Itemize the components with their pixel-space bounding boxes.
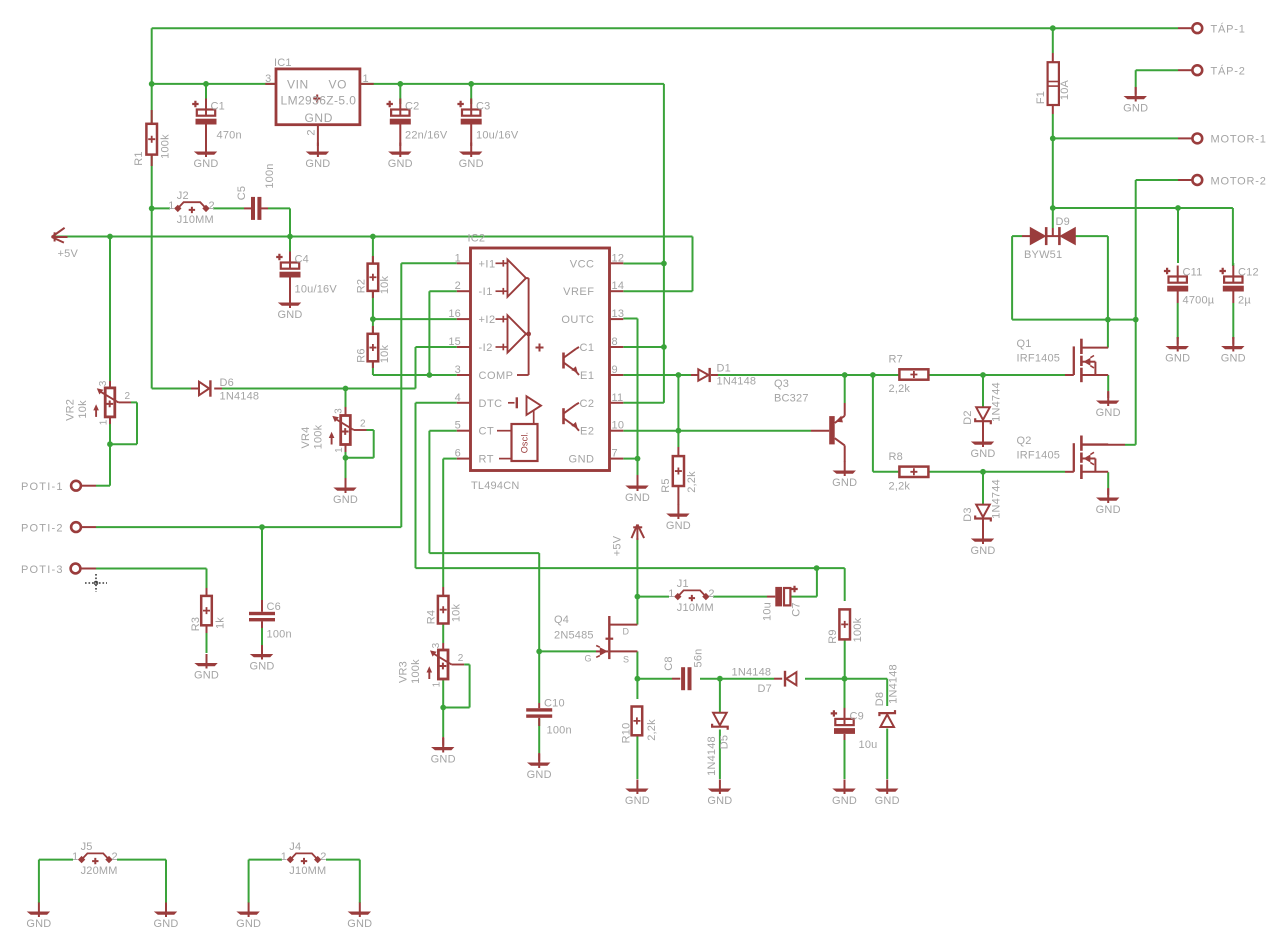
dual diode D9 BYW51 [1052, 228, 1054, 236]
svg-text:2N5485: 2N5485 [554, 630, 594, 642]
ground TAP-2 [1135, 87, 1137, 95]
svg-text:E1: E1 [580, 370, 594, 382]
wire R8 branch [872, 375, 874, 472]
ground C4 [289, 294, 291, 309]
svg-text:GND: GND [459, 158, 484, 170]
svg-text:1: 1 [281, 851, 287, 863]
ground C2 [399, 143, 401, 158]
zener diode D8 1N4148 [880, 715, 894, 728]
svg-text:100n: 100n [267, 629, 292, 641]
svg-text:1: 1 [668, 588, 674, 600]
svg-text:J20MM: J20MM [81, 865, 118, 877]
wire VCC drop to IC2 pin 12 [663, 84, 665, 347]
capacitor C6 [249, 612, 275, 615]
svg-text:3: 3 [334, 408, 345, 414]
svg-text:R5: R5 [660, 478, 672, 492]
svg-text:Q1: Q1 [1017, 338, 1032, 350]
jumper J4 [287, 856, 294, 863]
ground R10 [636, 780, 638, 795]
wire D9 left lead loop [1012, 235, 1022, 237]
svg-text:VCC: VCC [570, 258, 595, 270]
ground Q1 source [1107, 392, 1109, 407]
ground J5 pin2 [165, 903, 167, 918]
svg-text:R7: R7 [889, 354, 903, 366]
svg-text:1N4148: 1N4148 [732, 667, 772, 679]
svg-text:3: 3 [431, 642, 442, 648]
svg-text:CT: CT [479, 426, 495, 438]
svg-text:GND: GND [236, 918, 261, 930]
svg-text:14: 14 [612, 280, 625, 292]
svg-text:GND: GND [625, 795, 650, 807]
wire C12 stem [1232, 208, 1234, 266]
svg-text:VR2: VR2 [64, 399, 76, 421]
ground C10 [538, 753, 540, 761]
ground J4 pin1 [248, 903, 250, 918]
capacitor C8 [672, 678, 680, 680]
wire E2 row to Q3 base [623, 430, 811, 432]
ground R3 [206, 654, 208, 669]
svg-text:C8: C8 [663, 656, 675, 670]
wire C3 stem [470, 84, 472, 104]
svg-text:D6: D6 [220, 377, 234, 389]
wire +I1 to POTI-2 [401, 262, 457, 264]
svg-text:GND: GND [1221, 353, 1246, 365]
supply +5V arrow up [636, 525, 638, 541]
wire 5V regulator output rail [152, 83, 664, 85]
svg-text:2: 2 [320, 851, 326, 863]
svg-text:C2: C2 [405, 101, 419, 113]
svg-text:GND: GND [970, 545, 995, 557]
svg-text:1N4744: 1N4744 [990, 382, 1002, 422]
svg-text:2: 2 [708, 588, 714, 600]
svg-text:R10: R10 [620, 723, 632, 744]
svg-text:IRF1405: IRF1405 [1017, 450, 1061, 462]
svg-text:IC2: IC2 [468, 233, 486, 245]
wire C11 stem [1177, 208, 1179, 263]
svg-text:3: 3 [455, 364, 461, 376]
svg-text:GND: GND [305, 158, 330, 170]
ground D2 [982, 433, 984, 448]
svg-text:10: 10 [612, 420, 625, 432]
svg-text:COMP: COMP [479, 370, 514, 382]
svg-text:+5V: +5V [611, 535, 623, 556]
svg-text:GND: GND [388, 158, 413, 170]
svg-text:9: 9 [612, 364, 618, 376]
svg-text:C12: C12 [1238, 267, 1259, 279]
svg-text:100n: 100n [264, 163, 276, 188]
wire +5V to J1 node [636, 538, 638, 597]
wire F1 top [1052, 28, 1054, 53]
svg-text:GND: GND [1123, 103, 1148, 115]
wire E1 row through D1 to Q3/R7 [623, 374, 691, 376]
svg-text:11: 11 [612, 392, 624, 404]
connector pad MOTOR-1 [1178, 137, 1192, 139]
ground VR4 [345, 478, 347, 486]
svg-text:VO: VO [329, 78, 348, 92]
resistor R7 [899, 369, 928, 379]
svg-text:Q2: Q2 [1017, 435, 1032, 447]
ground C1 [205, 143, 207, 158]
svg-text:POTI-2: POTI-2 [21, 523, 64, 535]
capacitor C1 [192, 101, 198, 107]
diode D1 [691, 374, 698, 376]
ground Q2 source [1107, 489, 1109, 504]
resistor R5 [677, 447, 679, 456]
svg-text:TL494CN: TL494CN [471, 480, 519, 492]
wire left vertical R1/J2/D6 column [151, 28, 153, 388]
svg-text:MOTOR-2: MOTOR-2 [1211, 175, 1267, 187]
svg-text:GND: GND [153, 918, 178, 930]
IC2 comp bus [526, 277, 529, 279]
svg-text:GND: GND [707, 795, 732, 807]
IC2 right pin stubs [610, 262, 624, 264]
svg-text:1: 1 [432, 681, 443, 687]
wire VR2 wiper loop [136, 402, 138, 444]
svg-text:1: 1 [363, 73, 369, 85]
wire D8 bottom [886, 729, 888, 780]
svg-text:GND: GND [832, 795, 857, 807]
connector pad MOTOR-2 [1178, 179, 1192, 181]
svg-text:2: 2 [305, 129, 317, 135]
wire C8 row [637, 678, 672, 680]
ground D3 [982, 530, 984, 545]
IC2 dead-time comparator [508, 402, 515, 404]
svg-text:GND: GND [666, 520, 691, 532]
svg-text:GND: GND [347, 918, 372, 930]
ground J5 pin1 [38, 903, 40, 918]
svg-text:-I1: -I1 [479, 286, 493, 298]
svg-text:1: 1 [455, 252, 461, 264]
svg-text:GND: GND [193, 158, 218, 170]
resistor R2 [372, 256, 374, 264]
svg-text:1N4744: 1N4744 [990, 479, 1002, 519]
ground VR3 [442, 737, 444, 746]
ground IC2 pin7 [637, 475, 639, 484]
capacitor C2 [387, 101, 393, 107]
wire E1-E2 tie to R5 [677, 375, 679, 447]
zener diode D2 1N4744 [976, 407, 990, 420]
transistor Q4 2N5485 JFET [608, 616, 610, 659]
resistor R4 [442, 587, 444, 596]
svg-text:10k: 10k [379, 276, 391, 295]
IC regulator IC1 LM2936Z-5.0 [265, 83, 276, 85]
svg-text:2: 2 [360, 419, 366, 430]
svg-text:GND: GND [970, 448, 995, 460]
svg-text:Oscl.: Oscl. [520, 432, 530, 454]
MOSFET Q2 IRF1405 [1065, 471, 1074, 473]
svg-text:4700µ: 4700µ [1183, 295, 1215, 307]
IC op-amp U-IC2 TL494CN body [471, 248, 610, 471]
IC2 oscillator box [512, 424, 538, 461]
ground C11 [1177, 337, 1179, 345]
svg-text:12: 12 [612, 252, 625, 264]
svg-text:+I2: +I2 [479, 314, 496, 326]
junction dots [1050, 25, 1056, 31]
svg-text:R4: R4 [425, 610, 437, 624]
svg-text:G: G [585, 654, 592, 664]
svg-text:1N4148: 1N4148 [717, 376, 757, 388]
wire J5 right [117, 859, 166, 861]
svg-text:100k: 100k [312, 424, 324, 449]
svg-text:BC327: BC327 [774, 393, 809, 405]
jumper J1 [674, 593, 681, 600]
svg-text:GND: GND [277, 309, 302, 321]
svg-text:R9: R9 [827, 629, 839, 643]
svg-text:DTC: DTC [479, 398, 503, 410]
svg-text:E2: E2 [580, 426, 594, 438]
svg-text:2: 2 [125, 391, 131, 402]
wire C6 stem [261, 527, 263, 600]
wire VR2 column [109, 237, 111, 382]
svg-text:GND: GND [1165, 353, 1190, 365]
svg-text:D7: D7 [758, 683, 772, 695]
svg-text:15: 15 [448, 336, 461, 348]
capacitor C9 [831, 710, 837, 716]
svg-text:GND: GND [26, 918, 51, 930]
wire gate node to Q4 gate [539, 650, 596, 652]
ground C6 [261, 645, 263, 660]
wire VR4 bottom [345, 445, 347, 478]
diode D7 [774, 678, 782, 680]
svg-text:6: 6 [455, 448, 461, 460]
ground IC1 pin2 [317, 143, 319, 158]
svg-text:J5: J5 [81, 841, 93, 853]
IC2 output transistor 1 [562, 353, 565, 369]
wire R10 stem [636, 679, 638, 699]
svg-text:IRF1405: IRF1405 [1017, 353, 1061, 365]
svg-text:3: 3 [98, 380, 109, 386]
ground D8 [886, 780, 888, 795]
svg-text:J10MM: J10MM [289, 865, 326, 877]
svg-text:GND: GND [305, 111, 333, 125]
svg-text:C11: C11 [1183, 267, 1203, 279]
svg-text:2µ: 2µ [1238, 295, 1251, 307]
svg-text:R8: R8 [889, 451, 903, 463]
capacitor C3 [457, 101, 463, 107]
resistor R3 [206, 588, 208, 596]
svg-text:56n: 56n [692, 649, 704, 668]
wire D7 row [720, 678, 774, 680]
svg-text:GND: GND [431, 754, 456, 766]
svg-text:S: S [623, 655, 629, 665]
wire +5V rail [52, 236, 693, 238]
svg-text:C3: C3 [476, 101, 490, 113]
diode D6 [191, 388, 199, 390]
svg-text:C9: C9 [850, 711, 864, 723]
IC2 error amplifier 1 [508, 260, 527, 297]
svg-text:GND: GND [194, 670, 219, 682]
IC2 output transistor 2 [562, 408, 565, 424]
svg-text:GND: GND [832, 477, 857, 489]
svg-text:+I1: +I1 [479, 258, 496, 270]
svg-text:-I2: -I2 [479, 342, 493, 354]
svg-text:10u: 10u [859, 739, 878, 751]
svg-text:J10MM: J10MM [677, 602, 714, 614]
svg-text:2: 2 [455, 280, 461, 292]
svg-text:BYW51: BYW51 [1024, 249, 1062, 261]
svg-text:GND: GND [875, 795, 900, 807]
svg-text:VREF: VREF [563, 286, 594, 298]
svg-text:C6: C6 [267, 601, 281, 613]
resistor R6 [372, 326, 374, 334]
svg-text:1: 1 [168, 200, 174, 212]
svg-text:RT: RT [479, 454, 494, 466]
potentiometer VR2 [109, 381, 111, 388]
wire Q1 source to GND [1107, 375, 1109, 391]
transistor Q3 BC327 [811, 430, 829, 432]
svg-text:POTI-3: POTI-3 [21, 564, 64, 576]
wire J5 left [39, 859, 73, 861]
svg-text:J2: J2 [177, 190, 189, 202]
svg-text:J1: J1 [677, 578, 689, 590]
wire MOTOR-2 drop to Q2 drain [1136, 179, 1178, 181]
wire top VBAT rail [152, 27, 1178, 29]
svg-text:D2: D2 [962, 410, 974, 424]
svg-text:470n: 470n [217, 130, 242, 142]
capacitor C5 [244, 207, 252, 209]
wire R9 bottom [844, 639, 846, 678]
svg-text:D1: D1 [717, 363, 731, 375]
svg-text:R3: R3 [190, 617, 202, 631]
wire VREF connection [692, 237, 694, 292]
svg-text:VIN: VIN [287, 78, 309, 92]
resistor R1 [151, 110, 153, 124]
ground Q3 [844, 462, 846, 477]
svg-text:R6: R6 [355, 348, 367, 362]
svg-text:J10MM: J10MM [177, 214, 214, 226]
wire J1 row [637, 596, 669, 598]
wire VR4 wiper loop [373, 430, 375, 458]
svg-text:3: 3 [265, 73, 271, 85]
svg-text:7: 7 [612, 448, 618, 460]
resistor R9 [839, 609, 850, 639]
svg-text:D5: D5 [718, 735, 730, 749]
svg-text:D9: D9 [1056, 216, 1070, 228]
wire J2 branch [152, 207, 170, 209]
ground J4 pin2 [359, 903, 361, 918]
ground C9 [844, 780, 846, 795]
IC2 error amplifier 2 [508, 315, 527, 352]
svg-text:D: D [623, 627, 630, 637]
svg-text:2,2k: 2,2k [646, 719, 658, 741]
wire VR4 top to D6 row [345, 389, 347, 408]
svg-text:C1: C1 [211, 101, 225, 113]
svg-text:GND: GND [1096, 407, 1121, 419]
svg-text:10u/16V: 10u/16V [295, 284, 338, 296]
resistor R8 [899, 467, 928, 477]
svg-text:D8: D8 [874, 692, 886, 706]
svg-text:GND: GND [569, 454, 595, 466]
svg-text:4: 4 [455, 392, 461, 404]
potentiometer VR3 [442, 643, 444, 650]
IC2 left pin stubs [457, 262, 471, 264]
svg-text:8: 8 [612, 336, 618, 348]
svg-text:1k: 1k [214, 617, 226, 629]
svg-text:100k: 100k [159, 134, 171, 159]
svg-text:1: 1 [72, 851, 78, 863]
svg-text:1N4148: 1N4148 [887, 664, 899, 704]
svg-text:2,2k: 2,2k [889, 481, 911, 493]
svg-text:22n/16V: 22n/16V [405, 130, 448, 142]
svg-text:Q4: Q4 [554, 614, 569, 626]
MOSFET Q1 IRF1405 [1065, 374, 1074, 376]
svg-text:OUTC: OUTC [561, 314, 594, 326]
wire R4-VR3 link [442, 624, 444, 644]
svg-text:2: 2 [209, 200, 215, 212]
svg-text:Q3: Q3 [774, 378, 789, 390]
wire Q4 drain stem [636, 597, 638, 625]
zener diode D3 1N4744 [976, 505, 990, 517]
svg-text:TÁP-2: TÁP-2 [1211, 65, 1246, 78]
svg-text:R2: R2 [355, 279, 367, 293]
jumper J2 [174, 205, 181, 212]
wire Q3 emitter stem [844, 375, 846, 403]
jumper J5 [78, 856, 85, 863]
svg-text:IC1: IC1 [274, 57, 292, 69]
resistor R10 [632, 707, 643, 736]
ground R5 [677, 505, 679, 520]
svg-text:2: 2 [458, 653, 464, 664]
wire C1 stem [205, 84, 207, 100]
wire R2 chain [372, 237, 374, 264]
wire to D8 [845, 678, 888, 680]
svg-text:GND: GND [333, 494, 358, 506]
svg-text:C1: C1 [579, 342, 594, 354]
wire D9 center stem [1052, 208, 1054, 228]
svg-text:J4: J4 [289, 841, 301, 853]
capacitor C10 [526, 708, 552, 711]
capacitor C12 [1220, 268, 1226, 274]
svg-text:GND: GND [625, 492, 650, 504]
svg-text:2: 2 [112, 851, 118, 863]
svg-text:10k: 10k [450, 604, 462, 623]
wire POTI-3 to R3 [96, 568, 207, 570]
wire Q4 source node [636, 651, 638, 678]
svg-text:R1: R1 [133, 151, 145, 165]
wire C10 stem [538, 651, 540, 703]
svg-text:1: 1 [334, 447, 345, 453]
wire -I1 feedback [429, 290, 456, 292]
svg-text:POTI-1: POTI-1 [21, 481, 64, 493]
wire D5 stem [719, 679, 721, 712]
svg-text:+5V: +5V [58, 248, 79, 260]
wire D3 stem [982, 472, 984, 504]
wire OUTC to GND pin [623, 318, 637, 320]
svg-text:10u/16V: 10u/16V [476, 130, 519, 142]
wire J4 right [326, 859, 360, 861]
svg-text:100k: 100k [852, 617, 864, 642]
svg-text:10A: 10A [1059, 79, 1071, 100]
wire F1 bottom to D9 node [1052, 114, 1054, 208]
wire MOTOR-1 branch [1053, 137, 1178, 139]
zener diode D5 1N4148 [713, 713, 727, 726]
wire RT to R4 [443, 458, 457, 460]
wire CT to C10/gate node [429, 430, 456, 432]
ground D5 [719, 780, 721, 795]
svg-text:C2: C2 [579, 398, 594, 410]
svg-text:C10: C10 [544, 698, 565, 710]
wire DTC to C7/R9 node [416, 402, 457, 404]
svg-text:10k: 10k [77, 400, 89, 419]
wire capacitor rail y=208 [1053, 207, 1233, 209]
wire J4 left [249, 859, 282, 861]
svg-text:2,2k: 2,2k [889, 383, 911, 395]
svg-text:MOTOR-1: MOTOR-1 [1211, 134, 1267, 146]
svg-text:10k: 10k [379, 345, 391, 364]
capacitor C4 [289, 237, 291, 255]
svg-text:F1: F1 [1035, 91, 1047, 104]
wire VR3 wiper loop [469, 665, 471, 708]
